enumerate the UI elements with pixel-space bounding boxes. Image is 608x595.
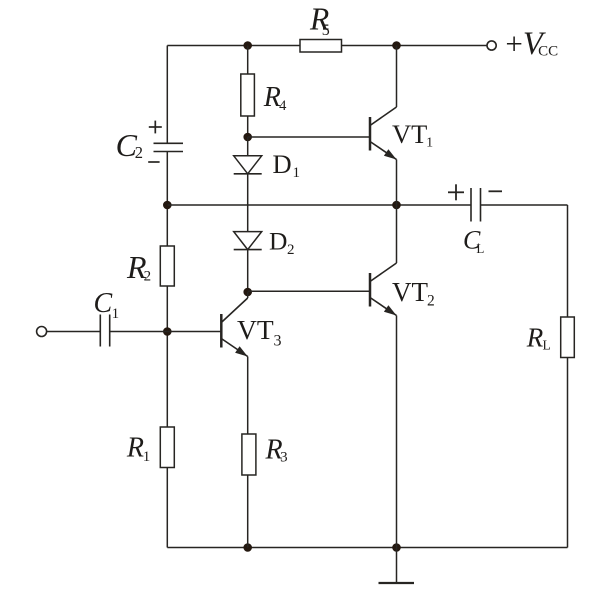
wire input to C1 [47,331,101,333]
terminal input (open circle) [37,327,47,337]
wire R4 bottom to node [247,116,249,137]
junction node top rail / R4 top [243,41,252,50]
transistor VT1 [370,107,397,160]
resistor R1 [160,427,174,468]
ground [379,548,415,584]
wire right rail upper (mid rail to RL) [567,205,569,318]
resistor RL [561,317,575,358]
transistor VT2 [370,263,397,316]
wire VT1 base [248,136,370,138]
resistor R5 [300,40,342,53]
wire left rail upper (top rail to C2) [166,46,168,144]
wire R4 top [247,46,249,76]
junction node top rail / VT1 collector [392,41,401,50]
diode D1 [234,156,262,174]
svg-text:VT1: VT1 [392,119,433,150]
label C2 plus sign [149,121,162,134]
wire VT2 emitter vertical [396,316,398,548]
wire left rail lower (C2 to bottom rail) [166,152,168,548]
wire VT1 emitter vertical (output node) [396,160,398,206]
junction node D2 / VT3 collector / VT2 base [243,288,252,297]
resistor R4 [241,74,255,116]
capacitor C2 [154,143,184,151]
capacitor CL [471,188,481,222]
wire mid rail (left rail to CL) [167,204,471,206]
wire VT2 base [248,290,370,292]
transistor VT3 [221,298,247,357]
wire top rail from R5 to +Vcc terminal [340,45,487,47]
wire VT2 collector vertical [396,205,398,263]
svg-text:R5: R5 [309,2,330,39]
resistor R2 [160,246,174,286]
wire C1 to VT3 base [110,331,222,333]
junction node bottom rail / VT2 emitter (ground node) [392,543,401,552]
junction node left rail / mid rail [163,201,172,210]
wire node to D1 anode [247,137,249,156]
wire VT3 emitter vertical [247,357,249,435]
label CL plus sign [448,184,464,200]
wire D1 cathode to D2 anode (crosses mid rail, no junction) [247,174,249,232]
wire D2 cathode to VT3 collector node [247,250,249,292]
capacitor C1 [100,315,109,347]
wire R3 bottom [247,475,249,548]
junction node mid rail / output column [392,201,401,210]
terminal +Vcc (open circle) [487,41,496,50]
junction node bottom rail / R3 [243,543,252,552]
wire right rail lower (RL to bottom rail) [567,357,569,548]
wire top rail from left rail corner to R5 [167,45,302,47]
label C2 minus sign [148,161,159,163]
junction node left rail / input [163,327,172,336]
wire VT1 collector vertical [396,46,398,108]
resistor R3 [242,434,256,475]
wire mid rail (CL to right rail) [481,204,568,206]
wire bottom rail [167,547,567,549]
diode D2 [234,232,262,250]
label CL minus sign [489,190,503,192]
junction node R4 / D1 / VT1 base [243,133,252,142]
wire VT3 collector vertical [247,292,249,298]
